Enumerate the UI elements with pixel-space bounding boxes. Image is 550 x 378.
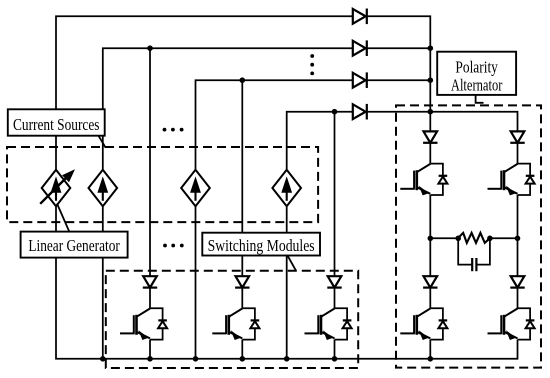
wire row 3 (source I3 up and right to diode D3) <box>196 80 353 170</box>
diode D1 <box>353 9 367 25</box>
junction mid/resistor right <box>487 236 493 242</box>
vertical ellipsis (more diode rows) <box>310 54 314 75</box>
current source I4 <box>272 170 301 206</box>
diode lower-right of alternator <box>510 276 524 287</box>
capacitor C load branch <box>458 238 490 271</box>
wire I4 bottom to bus <box>286 206 288 359</box>
wire LL diode to IGBT <box>429 288 431 309</box>
wire UR diode to IGBT <box>517 143 519 164</box>
IGBT Q4 lower-right <box>488 308 535 340</box>
junction mid/resistor left <box>455 236 461 242</box>
wire row 1 output (D1 to collector bus, corner down) <box>367 16 431 131</box>
wire column M2 (row3 junction down to module M2) <box>241 80 243 276</box>
wire Q2 emitter to mid node <box>517 195 519 238</box>
dashed box: switching modules group <box>106 271 358 368</box>
diode of module M2 <box>235 276 249 287</box>
svg-text:Current Sources: Current Sources <box>13 115 100 134</box>
dashed box: current sources group <box>7 147 318 222</box>
leader from Linear Generator label to source I1 <box>57 204 69 232</box>
wire M3 diode to IGBT <box>334 288 336 309</box>
svg-text:Switching Modules: Switching Modules <box>208 236 315 255</box>
bottom bus wire <box>56 206 518 359</box>
IGBT M1 with antiparallel diode <box>120 308 167 340</box>
wire mid to lower-right diode <box>517 238 519 276</box>
junction bus <box>240 356 246 362</box>
ellipsis between M1 and M2 (more modules) <box>163 244 184 248</box>
junction bus <box>284 356 290 362</box>
IGBT Q1 upper-left <box>400 164 447 196</box>
variable arrow of I1 <box>40 169 75 204</box>
leader from Switching Modules label to group box <box>288 256 297 271</box>
wire Q3 emitter to bus <box>429 340 431 359</box>
wire column M3 (row4 junction down to module M3) <box>334 112 336 277</box>
wire Q1 emitter to mid node <box>429 195 431 238</box>
junction bus/row4 <box>428 109 434 115</box>
wire M1 emitter to bus <box>149 340 151 359</box>
wire row 2 output (D2 to collector bus) <box>367 47 431 49</box>
wire mid node left <box>430 237 458 239</box>
resistor R load <box>458 233 490 243</box>
diode upper-left of alternator <box>423 131 437 142</box>
wire row 1 (source I1 up and right to diode D1) <box>56 16 353 170</box>
leader from Polarity Alternator label to group box <box>476 95 484 103</box>
ellipsis between I2 and I3 (more sources) <box>163 128 184 132</box>
diode of module M3 <box>327 276 341 287</box>
diode D4 <box>353 104 367 120</box>
label box: Polarity Alternator <box>437 52 516 95</box>
IGBT M3 with antiparallel diode <box>305 308 352 340</box>
diode of module M1 <box>143 276 157 287</box>
dashed box: polarity alternator group <box>396 105 541 367</box>
junction bus/row3 <box>428 77 434 83</box>
IGBT Q3 lower-left <box>400 308 447 340</box>
svg-text:Alternator: Alternator <box>451 76 503 95</box>
diode lower-left of alternator <box>423 276 437 287</box>
wire M1 diode to IGBT <box>149 288 151 309</box>
junction bus <box>100 356 106 362</box>
label box: Switching Modules <box>202 233 320 256</box>
wire row 4 (source I4 up and right to diode D4) <box>287 112 353 170</box>
junction bus/row2 <box>428 45 434 51</box>
wire row 3 output (D3 to collector bus) <box>367 79 431 81</box>
IGBT M2 with antiparallel diode <box>212 308 259 340</box>
wire row 2 (source I2 up and right to diode D2) <box>103 48 353 170</box>
label box: Current Sources <box>8 109 105 135</box>
wire I3 bottom to bus <box>195 206 197 359</box>
junction row3/M2 <box>240 77 246 83</box>
diode D3 <box>353 72 367 88</box>
wire row 4 output (D4 across to right column, corner down) <box>367 112 518 132</box>
wire UL diode to IGBT <box>429 143 431 164</box>
junction bus <box>332 356 338 362</box>
diode upper-right of alternator <box>510 131 524 142</box>
current source I1 (variable) <box>42 170 71 206</box>
IGBT Q2 upper-right <box>488 164 535 196</box>
junction mid/left column <box>428 236 434 242</box>
current source I2 <box>89 170 118 206</box>
wire LR diode to IGBT <box>517 288 519 309</box>
wire mid node right <box>490 237 518 239</box>
junction row4/M3 <box>332 109 338 115</box>
wire M3 emitter to bus <box>334 340 336 359</box>
diode D2 <box>353 40 367 56</box>
svg-text:Linear Generator: Linear Generator <box>28 236 120 255</box>
current source I3 <box>181 170 210 206</box>
leader from Current Sources label to group box <box>99 136 106 148</box>
svg-text:Polarity: Polarity <box>455 58 498 77</box>
junction mid/right column <box>515 236 521 242</box>
wire column M1 (row2 junction down to module M1) <box>149 48 151 276</box>
wire M2 emitter to bus <box>241 340 243 359</box>
wire mid to lower-left diode <box>429 238 431 276</box>
wire I2 bottom to bus <box>102 206 104 359</box>
label box: Linear Generator <box>21 232 128 258</box>
junction bus <box>428 356 434 362</box>
junction bus <box>147 356 153 362</box>
junction bus <box>193 356 199 362</box>
junction row2/M1 <box>147 45 153 51</box>
wire M2 diode to IGBT <box>241 288 243 309</box>
